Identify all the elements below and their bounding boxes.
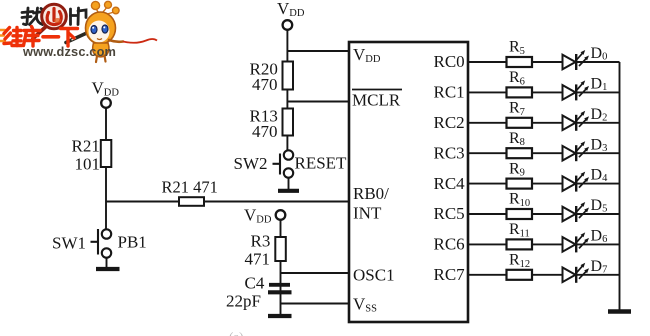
pin label RC7 <box>434 265 466 284</box>
pin label RC1 <box>434 83 465 102</box>
svg-text:RESET: RESET <box>295 154 348 173</box>
red char YI <box>43 35 59 39</box>
resistor R8 <box>507 130 533 158</box>
node VDD (middle lower) <box>244 206 285 226</box>
node VDD (far left) <box>92 79 120 108</box>
svg-text:22pF: 22pF <box>226 292 261 311</box>
resistor R3 <box>245 232 286 269</box>
watermark logo dzsc.com <box>0 1 157 62</box>
wire OSC1 junction to IC OSC1 pin <box>281 272 350 274</box>
ground (below SW1) <box>96 267 120 271</box>
pin label MCLR (active low) <box>352 90 402 110</box>
wire junction to IC MCLR pin <box>287 101 350 103</box>
svg-text:RC0: RC0 <box>434 52 465 71</box>
svg-text:101: 101 <box>75 155 101 174</box>
eyes <box>91 26 97 34</box>
resistor R10 <box>507 191 533 219</box>
svg-text:SW2: SW2 <box>234 154 268 173</box>
svg-text:RC7: RC7 <box>434 265 466 284</box>
LED D3 <box>563 136 608 161</box>
speed dashes <box>0 30 5 41</box>
LED D4 <box>563 167 609 192</box>
mascot arm + red whip <box>109 40 123 42</box>
mascot face <box>89 21 110 43</box>
pin label RC2 <box>434 113 465 132</box>
pin label RC0 <box>434 52 465 71</box>
mascot stick <box>66 32 90 43</box>
svg-text:RC2: RC2 <box>434 113 465 132</box>
black char ZHAO <box>22 8 43 25</box>
capacitor C4 (22pF) <box>226 274 292 311</box>
LED D6 <box>563 228 608 253</box>
svg-text:RC1: RC1 <box>434 83 465 102</box>
resistor R9 <box>507 160 533 188</box>
wire RC1 row to LED bus <box>468 91 620 93</box>
resistor R11 <box>507 221 533 249</box>
LED D5 <box>563 197 608 222</box>
pin label VDD <box>353 45 381 65</box>
svg-text:RB0/: RB0/ <box>353 184 389 203</box>
LED D0 <box>563 45 608 70</box>
svg-text:470: 470 <box>252 75 278 94</box>
svg-text:C4: C4 <box>245 274 265 293</box>
wire SW1 to ground <box>106 258 108 267</box>
svg-text:R21: R21 <box>72 137 100 156</box>
svg-text:www.dzsc.com: www.dzsc.com <box>22 44 116 59</box>
resistor R21 (101) <box>72 137 112 174</box>
pin label RC5 <box>434 204 465 223</box>
svg-text:OSC1: OSC1 <box>353 266 395 285</box>
pin label RC3 <box>434 143 465 162</box>
resistor R6 <box>507 69 533 97</box>
LED D2 <box>563 106 608 131</box>
switch SW2 (RESET pushbutton) <box>234 150 348 177</box>
magnifier handle <box>33 27 46 39</box>
resistor R7 <box>507 100 533 128</box>
svg-text:R3: R3 <box>251 232 271 251</box>
svg-text:RC4: RC4 <box>434 174 466 193</box>
wire RC5 row to LED bus <box>468 213 620 215</box>
ground (bottom right) <box>608 309 631 314</box>
svg-text:RC3: RC3 <box>434 143 465 162</box>
svg-text:471: 471 <box>245 250 271 269</box>
LED D7 <box>563 258 608 283</box>
wire RC3 row to LED bus <box>468 152 620 154</box>
mascot head <box>86 12 116 44</box>
ground (below SW2) <box>278 189 299 193</box>
switch SW1 (PB1 pushbutton) <box>52 229 147 258</box>
svg-text:MCLR: MCLR <box>352 91 401 110</box>
wire RC2 row to LED bus <box>468 122 620 124</box>
wire far-left vertical branch <box>105 108 107 230</box>
wire RB0 row (junction to IC RB0/INT pin) <box>106 201 349 203</box>
wire RC0 row to LED bus <box>468 61 620 63</box>
IC U1 (PIC microcontroller) body <box>349 42 468 322</box>
resistor R13 <box>250 107 294 142</box>
wire VDD terminal down through R20/R13 to SW2 <box>286 30 288 151</box>
svg-text:470: 470 <box>252 122 278 141</box>
red char WEI <box>4 28 22 46</box>
wire LED cathode bus <box>619 62 621 310</box>
ground (below C4) <box>268 314 292 318</box>
resistor R12 <box>507 252 533 280</box>
red char XIA <box>61 29 78 47</box>
pin label OSC1 <box>353 266 395 285</box>
svg-text:R21 471: R21 471 <box>162 178 218 197</box>
wire RC4 row to LED bus <box>468 183 620 185</box>
node VDD (top middle) <box>277 0 305 30</box>
resistor R20 <box>250 60 294 95</box>
resistor R5 <box>507 39 533 67</box>
wire junction to IC VDD pin <box>287 50 350 52</box>
svg-text:(a): (a) <box>229 329 243 336</box>
red char KU <box>24 27 41 47</box>
pin label RC6 <box>434 235 465 254</box>
mascot body <box>93 43 109 57</box>
pin label RB0/INT <box>353 184 389 223</box>
wire RC7 row to LED bus <box>468 274 620 276</box>
magnifier glass <box>42 4 67 29</box>
black char PIAN <box>71 8 87 25</box>
LED D1 <box>563 76 608 101</box>
wire R3/C4 vertical branch <box>280 220 282 314</box>
pin label RC4 <box>434 174 466 193</box>
red XIN char inside glass <box>47 9 61 25</box>
svg-text:INT: INT <box>353 204 382 223</box>
pin label VSS <box>353 295 377 315</box>
svg-text:SW1: SW1 <box>52 234 86 253</box>
mascot antennae <box>91 1 119 14</box>
mascot legs <box>96 56 106 63</box>
svg-text:RC5: RC5 <box>434 204 465 223</box>
wire RC6 row to LED bus <box>468 243 620 245</box>
wire VSS junction to IC VSS pin <box>281 303 350 305</box>
resistor R21 471 (series in RB0 line) <box>162 178 218 206</box>
wire SW2 to ground <box>288 178 290 189</box>
svg-text:PB1: PB1 <box>118 233 147 252</box>
svg-text:RC6: RC6 <box>434 235 465 254</box>
